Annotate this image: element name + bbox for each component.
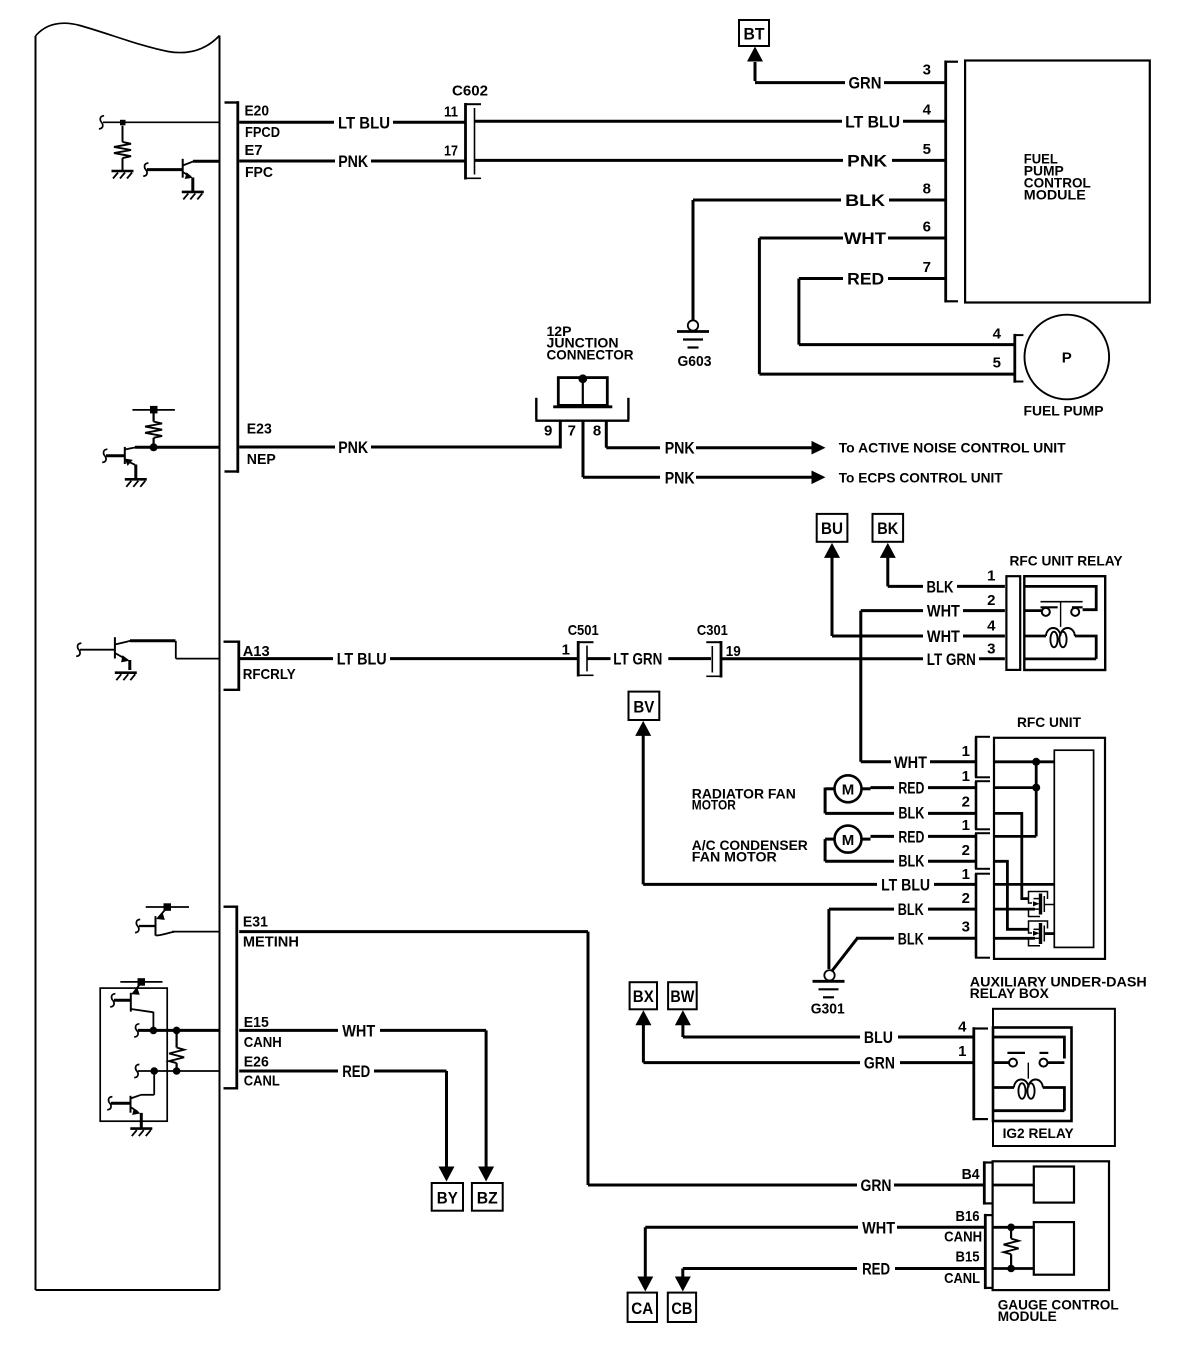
svg-text:7: 7: [923, 259, 931, 276]
svg-text:BY: BY: [437, 1189, 459, 1208]
svg-text:IG2 RELAY: IG2 RELAY: [1003, 1125, 1075, 1141]
svg-text:WHT: WHT: [862, 1218, 896, 1237]
transistor Q2 (NEP PNP): [106, 447, 136, 479]
RFC unit internal: row1 feed + dot: [994, 760, 1054, 763]
connector box BZ: [472, 1183, 503, 1211]
svg-text:BLK: BLK: [898, 929, 925, 948]
RFC relay internal: pin1 feed: [1024, 586, 1096, 609]
IG2 relay box: [993, 1028, 1072, 1122]
svg-text:17: 17: [444, 142, 458, 159]
RFC relay contact: [1041, 602, 1083, 627]
wire Q3 collector to A13 pin (stepped): [130, 641, 220, 659]
arrow to ECPS control unit: [812, 471, 826, 485]
wires WHT/RED inside gauge: [993, 1227, 1034, 1268]
svg-text:BZ: BZ: [477, 1189, 498, 1208]
wire GRN (BT to module pin 3): [755, 62, 945, 83]
svg-text:C301: C301: [697, 622, 728, 639]
svg-text:RED: RED: [847, 270, 884, 289]
connector box BT: [739, 20, 769, 46]
svg-text:PNK: PNK: [338, 152, 369, 171]
RFC relay internal: pin2 to contact: [1024, 609, 1041, 612]
svg-text:PNK: PNK: [665, 468, 696, 487]
gauge bracket B16/B15: [984, 1214, 992, 1289]
wire junction pin 7 PNK to ECPS: [583, 420, 814, 477]
ground (Q2 emitter): [125, 479, 147, 487]
svg-text:1: 1: [962, 817, 970, 834]
wire CANH internal: [138, 1029, 220, 1032]
wire E31 METINH long run to gauge B4: [239, 932, 984, 1185]
RFC unit box: [994, 738, 1105, 959]
connector box CA: [628, 1293, 657, 1322]
wire PNK (C602 to module): [475, 159, 945, 162]
svg-text:FPC: FPC: [245, 164, 273, 181]
svg-text:BLU: BLU: [864, 1028, 893, 1047]
svg-text:FUEL PUMP: FUEL PUMP: [1024, 403, 1104, 419]
RFC unit internal: row7 to mosfet1: [994, 908, 1035, 911]
IG2 relay internal: bottom row: [993, 1109, 1064, 1112]
wire WHT (to gauge B16 + down to CA): [645, 1227, 985, 1287]
ground (Q1 emitter): [182, 192, 204, 200]
RFC unit internal: row6 to module: [994, 883, 1054, 886]
svg-text:WHT: WHT: [844, 229, 887, 248]
gauge control module box: [993, 1161, 1109, 1290]
svg-text:8: 8: [593, 423, 601, 440]
svg-text:B16: B16: [956, 1208, 980, 1225]
IG2 relay contact: [1007, 1053, 1048, 1079]
svg-text:RFC UNIT RELAY: RFC UNIT RELAY: [1010, 552, 1124, 568]
wire GRN inside gauge: [993, 1184, 1034, 1187]
svg-text:E23: E23: [247, 421, 272, 438]
junction dot CANH/R3: [173, 1027, 181, 1035]
wire WHT (relay pin 2 to RFC unit row): [861, 611, 1005, 762]
wire RED (module pin 7 to pump pin 4): [799, 279, 1015, 345]
wire BLK (M2 to unit row5): [825, 839, 976, 861]
CAN driver block box: [100, 988, 167, 1121]
svg-text:2: 2: [962, 794, 970, 811]
connector C501: [578, 641, 593, 677]
fuel pump control module box: [965, 61, 1150, 303]
svg-text:C501: C501: [568, 622, 599, 639]
junction dot CANH/Q5: [150, 1027, 158, 1035]
arrow to active noise control unit: [812, 441, 826, 455]
wire curl (Q1 base): [143, 163, 148, 176]
wire E20 LT BLU (left of C602): [239, 121, 464, 124]
resistor R1 (FPCD pull-down): [114, 126, 131, 171]
svg-text:1: 1: [962, 743, 970, 760]
junction dot CANL/R3: [173, 1067, 181, 1075]
svg-text:M: M: [842, 832, 855, 849]
wire Q1 collector to FPC pin: [193, 160, 220, 163]
arrow up into BT: [747, 47, 763, 62]
svg-text:3: 3: [987, 640, 995, 657]
svg-text:CANL: CANL: [944, 1270, 980, 1287]
svg-text:WHT: WHT: [927, 602, 961, 621]
arrow down into BY: [439, 1167, 455, 1182]
wire BLK (G301 to unit row7): [829, 909, 976, 969]
svg-text:LT GRN: LT GRN: [927, 650, 976, 669]
connector box BK: [873, 514, 904, 542]
svg-text:8: 8: [923, 180, 931, 197]
wire RED (to gauge B15 + down to CB): [683, 1269, 986, 1288]
svg-text:FAN MOTOR: FAN MOTOR: [692, 848, 777, 864]
svg-text:NEP: NEP: [247, 451, 276, 468]
arrow down into CA: [637, 1277, 653, 1292]
mosfet Q11 (fan control 2): [1029, 921, 1055, 946]
svg-text:E20: E20: [245, 102, 270, 119]
connector C602: [466, 103, 482, 180]
connector box BY: [432, 1183, 463, 1211]
IG2 relay coil: [993, 1080, 1064, 1111]
svg-text:G603: G603: [678, 353, 712, 370]
wire curl (CANL): [134, 1064, 139, 1077]
svg-text:7: 7: [568, 423, 576, 440]
connector box BV: [629, 692, 660, 720]
svg-text:RED: RED: [898, 827, 924, 846]
svg-text:B4: B4: [962, 1166, 981, 1183]
svg-text:WHT: WHT: [342, 1021, 376, 1040]
svg-text:To ACTIVE NOISE CONTROL UNIT: To ACTIVE NOISE CONTROL UNIT: [839, 440, 1066, 456]
svg-text:1: 1: [987, 568, 995, 585]
arrow up into BX + wire GRN (IG2 pin 1): [635, 1010, 651, 1025]
resistor R3 (CAN terminator): [169, 1030, 184, 1071]
gauge internal box 1: [1034, 1167, 1074, 1203]
auxiliary under-dash relay box: [993, 1009, 1115, 1146]
wire curl (Q5 base): [110, 994, 115, 1007]
svg-text:E15: E15: [244, 1014, 269, 1031]
wire Q4 collector to E31 pin: [172, 931, 220, 933]
svg-text:MOTOR: MOTOR: [692, 797, 736, 813]
svg-text:BK: BK: [877, 519, 899, 538]
svg-text:4: 4: [993, 325, 1002, 342]
svg-text:1: 1: [562, 642, 570, 659]
svg-text:LT BLU: LT BLU: [337, 650, 387, 669]
junction dot METINH rail: [164, 903, 172, 911]
svg-text:1: 1: [962, 768, 970, 785]
connector box BW: [668, 982, 697, 1009]
RFC unit internal: row5 to mosfet2: [994, 861, 1029, 929]
arrow up into BU + wire WHT pin4 riser: [824, 543, 840, 558]
ground (R1): [112, 171, 134, 179]
wire curl (Q6 base): [107, 1097, 112, 1110]
wire CANL internal: [138, 1070, 220, 1072]
IG2 relay internal: pin1 row to contact: [993, 1061, 1064, 1064]
svg-text:BLK: BLK: [845, 191, 886, 210]
RFC relay internal: pin3 row: [1024, 658, 1096, 661]
svg-text:GRN: GRN: [849, 74, 882, 93]
a/c condenser fan motor M2: [825, 826, 870, 853]
connector box CB: [668, 1293, 696, 1322]
wire curl (Q3 base): [76, 643, 81, 656]
connector bracket A13: [224, 641, 240, 692]
RFC unit internal: row3 to mosfet1: [994, 813, 1029, 898]
mosfet Q10 (fan control 1): [1029, 892, 1055, 917]
ground G603: [688, 320, 698, 330]
svg-text:CONNECTOR: CONNECTOR: [547, 346, 634, 362]
radiator fan motor M1: [825, 775, 870, 802]
transistor Q6 (CANL NPN): [111, 1071, 154, 1128]
svg-text:MODULE: MODULE: [1024, 187, 1086, 203]
wire LT GRN (C501 to C301): [588, 657, 712, 660]
svg-text:RED: RED: [898, 779, 924, 798]
svg-text:WHT: WHT: [894, 753, 928, 772]
IG2 relay internal: pin4 feed: [993, 1037, 1064, 1059]
svg-text:CANH: CANH: [944, 1229, 982, 1246]
node NEP rail: [132, 409, 175, 411]
svg-text:E31: E31: [243, 914, 268, 931]
gauge bracket B4: [983, 1161, 992, 1204]
RFC unit inner module rect: [1054, 750, 1093, 947]
svg-text:BT: BT: [744, 25, 766, 44]
svg-text:BW: BW: [670, 987, 695, 1006]
wire E15 WHT to BZ: [239, 1030, 486, 1177]
wire curl (FPCD): [99, 116, 104, 129]
svg-text:MODULE: MODULE: [998, 1308, 1057, 1324]
connector box BX: [630, 982, 657, 1009]
svg-text:B15: B15: [956, 1248, 980, 1265]
svg-text:3: 3: [962, 919, 970, 936]
svg-text:LT BLU: LT BLU: [845, 112, 900, 131]
svg-text:G301: G301: [811, 1000, 845, 1017]
gauge internal box 2: [1034, 1222, 1074, 1275]
svg-text:CA: CA: [631, 1299, 653, 1318]
svg-text:4: 4: [987, 618, 996, 635]
RFC unit internal: row8 to mosfet2: [994, 937, 1035, 940]
svg-text:4: 4: [923, 102, 932, 119]
wire Q2 collector to NEP pin: [135, 446, 220, 449]
svg-text:PNK: PNK: [338, 438, 369, 457]
svg-text:BLK: BLK: [927, 577, 955, 596]
svg-text:4: 4: [958, 1018, 967, 1035]
svg-text:P: P: [1062, 350, 1072, 367]
junction dot FPCD: [120, 120, 126, 126]
junction dot CANL/Q6: [150, 1067, 158, 1075]
RFC unit relay connector bracket: [1006, 576, 1020, 670]
junction dot (NEP collector): [150, 443, 158, 451]
RFC unit internal: row2 + dot + vertical to row4: [994, 762, 1036, 837]
svg-text:C602: C602: [452, 83, 488, 100]
transistor Q1 (FPC driver NPN): [147, 159, 194, 192]
wire BLK (G301 diagonal to unit row8): [832, 938, 977, 971]
wire BLK (M1 to unit row3): [825, 788, 976, 814]
svg-text:E26: E26: [244, 1053, 269, 1070]
wire RED (M2 to unit row4): [871, 835, 977, 838]
svg-text:E7: E7: [245, 142, 263, 159]
fuel pump connector bracket: [1014, 334, 1024, 383]
transistor Q5 (CANH PNP): [114, 982, 153, 1030]
svg-text:6: 6: [923, 218, 931, 235]
wire curl (Q4 base): [135, 919, 140, 932]
ground (Q3 emitter): [115, 673, 137, 681]
resistor R4 (gauge CAN terminator): [1004, 1227, 1019, 1268]
svg-text:METINH: METINH: [243, 934, 299, 951]
junction dot (gauge CANL): [1007, 1265, 1015, 1273]
wire curl (Q2 base): [102, 449, 107, 462]
connector bracket E20/E7/E23: [225, 101, 239, 473]
arrow up into BK + wire BLK pin1: [880, 543, 896, 558]
wire LT GRN (C301 to RFC unit relay pin 3): [722, 657, 1005, 660]
junction dot NEP rail: [150, 406, 158, 414]
arrow down into CB: [675, 1277, 691, 1292]
RFC relay coil: [1024, 628, 1096, 659]
svg-text:BU: BU: [821, 519, 843, 538]
svg-text:To ECPS CONTROL UNIT: To ECPS CONTROL UNIT: [839, 469, 1003, 485]
svg-text:BLK: BLK: [898, 851, 925, 870]
svg-text:PNK: PNK: [847, 151, 888, 170]
junction dot (bus): [578, 374, 587, 383]
svg-text:CANH: CANH: [244, 1034, 282, 1051]
junction dot CAN top rail: [138, 978, 146, 986]
svg-text:LT BLU: LT BLU: [881, 875, 930, 894]
fuel pump motor P: [1025, 315, 1110, 400]
wire LT BLU (C602 to module): [475, 120, 945, 123]
arrow up into BV + wire LT BLU (unit row6): [635, 721, 651, 736]
svg-text:RFCRLY: RFCRLY: [243, 666, 296, 683]
wire E7 PNK (left of C602): [239, 160, 464, 163]
RFC unit connector bracket (grouped with ticks): [975, 737, 990, 958]
svg-text:RED: RED: [862, 1260, 890, 1279]
svg-text:2: 2: [962, 890, 970, 907]
node CAN top rail: [120, 981, 162, 983]
svg-text:3: 3: [923, 62, 931, 79]
wire BLK (G603 to module pin 8): [693, 200, 945, 320]
svg-text:BV: BV: [633, 697, 655, 716]
12P junction connector shell: [535, 398, 629, 421]
svg-text:BLK: BLK: [898, 803, 925, 822]
wire curl (CANH): [134, 1024, 139, 1037]
svg-text:2: 2: [987, 592, 995, 609]
svg-text:CB: CB: [671, 1299, 692, 1318]
connector bracket (fuel pump control module): [945, 61, 958, 303]
engine control module box (torn top): [36, 23, 220, 1290]
arrow up into BW + wire BLU (IG2 pin 4): [675, 1010, 691, 1025]
wire WHT (module pin 6 to pump pin 5): [759, 238, 1014, 374]
svg-text:LT BLU: LT BLU: [338, 113, 390, 132]
connector bracket E31/E15/E26: [224, 906, 238, 1090]
svg-text:M: M: [842, 782, 855, 799]
wire E23 PNK to junction pin 9: [239, 420, 560, 449]
ground (Q6 emitter): [130, 1129, 152, 1137]
connector C301 (mirrored): [706, 641, 721, 678]
svg-text:GRN: GRN: [861, 1176, 892, 1195]
IG2 connector bracket: [973, 1027, 988, 1120]
transistor Q3 (RFCRLY driver NPN): [80, 637, 131, 670]
RFC unit relay box: [1024, 576, 1105, 670]
wire A13 LT BLU to C501: [239, 657, 577, 660]
svg-text:FPCD: FPCD: [245, 124, 280, 141]
connector box BU: [817, 514, 848, 542]
svg-text:1: 1: [958, 1043, 966, 1060]
svg-text:CANL: CANL: [244, 1073, 280, 1090]
12P junction connector bus bar: [553, 378, 612, 407]
svg-text:11: 11: [444, 103, 458, 120]
svg-text:RFC UNIT: RFC UNIT: [1017, 714, 1081, 730]
ground G301: [824, 970, 834, 980]
svg-text:2: 2: [962, 842, 970, 859]
node METINH rail: [146, 906, 189, 908]
junction dot (gauge CANH): [1007, 1224, 1015, 1232]
node FPCD internal wire: [103, 121, 220, 123]
svg-text:1: 1: [962, 866, 970, 883]
wire junction pin 8 PNK to active noise control: [606, 420, 814, 448]
svg-text:GRN: GRN: [864, 1054, 895, 1073]
svg-text:BX: BX: [633, 987, 655, 1006]
wire E26 RED to BY: [239, 1071, 446, 1177]
svg-text:RED: RED: [342, 1062, 370, 1081]
arrow down into BZ: [478, 1167, 494, 1182]
svg-text:WHT: WHT: [927, 627, 961, 646]
svg-text:BLK: BLK: [898, 900, 925, 919]
svg-text:LT GRN: LT GRN: [613, 650, 662, 669]
svg-text:5: 5: [923, 141, 931, 158]
svg-text:9: 9: [544, 423, 552, 440]
resistor R2 (NEP): [145, 413, 162, 445]
svg-text:5: 5: [993, 354, 1001, 371]
svg-text:RELAY BOX: RELAY BOX: [970, 985, 1050, 1001]
wire RED (M1 to unit row2): [871, 786, 977, 789]
svg-text:PNK: PNK: [665, 439, 696, 458]
transistor Q4 (METINH PNP): [139, 907, 174, 935]
